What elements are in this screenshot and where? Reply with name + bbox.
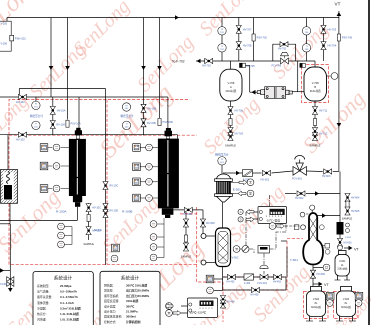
svg-text:HV-704: HV-704 [328, 44, 337, 48]
svg-text:FV403: FV403 [0, 283, 8, 286]
svg-text:D: D [240, 218, 242, 221]
svg-text:HV-703: HV-703 [328, 27, 337, 31]
svg-text:316L材质: 316L材质 [341, 305, 352, 309]
svg-text:液体流量:: 液体流量: [37, 300, 50, 305]
svg-text:1.4L 316L材质: 1.4L 316L材质 [60, 311, 79, 316]
svg-text:FCV-401: FCV-401 [258, 282, 268, 285]
svg-text:HV-705: HV-705 [278, 48, 287, 51]
svg-text:V-206: V-206 [1, 43, 8, 46]
svg-text:316L材质: 316L材质 [337, 267, 348, 271]
svg-text:HV-711: HV-711 [319, 110, 328, 113]
svg-text:316L材质: 316L材质 [225, 89, 236, 93]
svg-text:V-708: V-708 [228, 81, 235, 85]
svg-text:HV-710: HV-710 [202, 64, 211, 68]
svg-text:20.0Mpa: 20.0Mpa [60, 284, 72, 288]
svg-text:出口压力20.0MPa: 出口压力20.0MPa [126, 293, 150, 298]
svg-text:HV-404: HV-404 [227, 301, 236, 304]
svg-text:0.5~10Nm³/h: 0.5~10Nm³/h [60, 290, 77, 294]
svg-text:HV-708: HV-708 [243, 44, 252, 48]
svg-text:HV-605: HV-605 [351, 210, 360, 213]
svg-text:V-601: V-601 [339, 260, 346, 263]
svg-text:CV-705: CV-705 [246, 65, 255, 68]
svg-text:RV-10B: RV-10B [147, 122, 156, 125]
svg-text:HV-706: HV-706 [235, 110, 244, 113]
svg-text:SAMPLE: SAMPLE [310, 144, 321, 148]
svg-text:HV-604: HV-604 [351, 197, 360, 200]
svg-text:FCV-601: FCV-601 [292, 178, 302, 181]
svg-text:0.1~1.0L/h: 0.1~1.0L/h [60, 301, 74, 305]
svg-text:PSV-10B: PSV-10B [163, 121, 173, 124]
svg-text:预热器:: 预热器: [104, 283, 114, 288]
svg-text:HV-10D: HV-10D [92, 230, 101, 233]
svg-text:300℃ 316L材质: 300℃ 316L材质 [126, 283, 147, 288]
svg-text:闪蒸罐:: 闪蒸罐: [37, 317, 47, 322]
svg-text:系统耐压:: 系统耐压: [37, 283, 50, 288]
svg-text:设计压力:: 设计压力: [104, 309, 117, 314]
svg-text:1.0L 316L材质: 1.0L 316L材质 [60, 317, 79, 322]
svg-text:E-501: E-501 [233, 188, 241, 192]
svg-text:控制方式:: 控制方式: [104, 319, 117, 324]
svg-text:氢气流量:: 氢气流量: [37, 289, 50, 294]
svg-text:B: B [314, 85, 316, 89]
svg-text:PI: PI [35, 104, 37, 106]
svg-text:VT: VT [354, 248, 360, 252]
svg-text:热高分:: 热高分: [37, 311, 47, 316]
svg-text:循环压缩机:: 循环压缩机: [104, 293, 119, 298]
svg-text:精密压力计: 精密压力计 [121, 114, 134, 118]
svg-text:TI: TI [235, 248, 237, 251]
svg-text:HV-10E: HV-10E [183, 213, 192, 216]
svg-text:固定床总容积:: 固定床总容积: [104, 314, 122, 319]
svg-text:增压泵:: 增压泵: [104, 288, 114, 293]
svg-text:SAMPLE: SAMPLE [181, 255, 192, 259]
svg-text:HV-707: HV-707 [243, 27, 252, 31]
svg-text:RV-508: RV-508 [206, 222, 215, 225]
svg-text:PSV-10A: PSV-10A [71, 123, 81, 126]
svg-text:PSV-702: PSV-702 [257, 36, 268, 40]
svg-text:HV-101: HV-101 [16, 100, 25, 104]
svg-text:A: A [230, 85, 232, 89]
svg-text:HV-709: HV-709 [235, 133, 244, 136]
svg-text:3000ml: 3000ml [126, 315, 136, 319]
svg-text:HV-712: HV-712 [319, 133, 328, 136]
svg-text:计算机控制: 计算机控制 [126, 319, 141, 324]
svg-text:系统设计: 系统设计 [121, 275, 140, 282]
svg-text:V-502: V-502 [232, 256, 240, 260]
svg-text:RV-10C: RV-10C [110, 185, 119, 188]
svg-text:HV-602: HV-602 [295, 197, 304, 200]
svg-text:HV-402: HV-402 [227, 280, 236, 283]
svg-text:HV-10A: HV-10A [57, 109, 66, 112]
svg-text:T-601: T-601 [290, 258, 298, 262]
svg-text:0.1~0.5Nm³/h: 0.1~0.5Nm³/h [60, 295, 78, 299]
svg-text:316L材质: 316L材质 [310, 89, 321, 93]
svg-text:RV-10D: RV-10D [110, 210, 119, 213]
svg-text:SAMPLE: SAMPLE [342, 217, 353, 221]
svg-text:300℃: 300℃ [126, 304, 135, 308]
svg-text:HV-10B: HV-10B [148, 107, 157, 110]
svg-text:21.0MPa: 21.0MPa [126, 310, 138, 314]
svg-text:LI: LI [326, 267, 328, 270]
svg-text:VT: VT [324, 283, 330, 287]
svg-text:HV-10C: HV-10C [92, 207, 101, 210]
svg-text:精密压力计: 精密压力计 [215, 153, 229, 157]
svg-text:To F-702: To F-702 [172, 59, 185, 63]
svg-text:-10℃~常温: -10℃~常温 [266, 218, 280, 222]
svg-text:PSV-706: PSV-706 [342, 36, 353, 40]
svg-text:B: B [250, 192, 252, 196]
svg-text:HV-606: HV-606 [317, 273, 326, 276]
svg-text:出口压力20.0MPa: 出口压力20.0MPa [126, 288, 150, 293]
svg-text:冷凝器:: 冷凝器: [37, 305, 47, 310]
svg-text:精密压力计: 精密压力计 [30, 114, 43, 118]
svg-text:系统设计: 系统设计 [54, 275, 73, 282]
svg-text:HV-102: HV-102 [16, 138, 25, 142]
svg-text:循环氢流量:: 循环氢流量: [37, 294, 52, 299]
svg-text:RV-10A: RV-10A [56, 124, 65, 127]
svg-text:F-402: F-402 [244, 282, 251, 285]
svg-text:R-100B: R-100B [122, 210, 133, 214]
svg-text:PSH-202: PSH-202 [15, 37, 26, 41]
svg-text:0.3m² 316L材质: 0.3m² 316L材质 [60, 305, 81, 310]
svg-text:C: C [240, 211, 242, 214]
svg-text:V-604: V-604 [345, 237, 351, 239]
svg-text:固定反应器:: 固定反应器: [104, 298, 119, 303]
svg-text:R-100A: R-100A [56, 209, 67, 213]
svg-text:HV-603: HV-603 [344, 241, 353, 244]
svg-text:HV-601: HV-601 [261, 177, 270, 181]
svg-text:316L材质: 316L材质 [311, 305, 322, 309]
svg-text:V-708: V-708 [312, 81, 319, 85]
svg-text:HV-405: HV-405 [251, 293, 260, 296]
svg-text:设计温度:: 设计温度: [104, 303, 117, 308]
svg-text:VT: VT [335, 2, 341, 7]
svg-text:PCV-706: PCV-706 [272, 65, 282, 68]
svg-text:SAMPLE: SAMPLE [83, 242, 94, 246]
svg-text:SAMPLE: SAMPLE [225, 144, 236, 148]
svg-text:HV-403: HV-403 [273, 280, 282, 283]
svg-text:V-603: V-603 [343, 298, 350, 301]
svg-text:316L材质: 316L材质 [126, 298, 138, 303]
svg-text:V-602: V-602 [313, 298, 320, 301]
svg-text:V-205: V-205 [1, 23, 8, 26]
svg-text:HV-603: HV-603 [322, 175, 331, 178]
